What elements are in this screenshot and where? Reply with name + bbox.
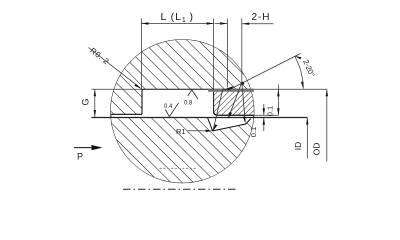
detail circle [111,40,254,183]
svg-text:0.4: 0.4 [164,104,173,110]
svg-text:2-H: 2-H [252,12,271,23]
center chain line [123,188,237,190]
tiny dotted marks inside circle bottom [160,167,197,169]
dimension 0.1 (clearance gap) [263,104,265,115]
svg-text:R1: R1 [176,127,186,136]
upper housing mass hatched [105,30,260,114]
notch edges [208,118,251,131]
dimension L(L1) [140,19,142,90]
pressure arrow P [74,147,95,149]
dimension 2-H [226,19,228,88]
lower part surface line [92,117,308,119]
dimension ID [306,118,308,159]
groove left wall edge [141,89,143,114]
dimension OD [326,89,328,161]
insert top contact thick line [208,89,254,92]
dimension G [94,89,96,117]
X leader lines on insert [213,89,223,131]
svg-text:L (L1 ): L (L1 ) [161,11,194,24]
groove top line [92,88,142,90]
angle line 2-20 deg [228,54,301,91]
insert left edge [213,91,215,112]
lip bottom edge [109,113,142,115]
svg-text:0.8: 0.8 [184,101,193,107]
leader R0.2 [89,48,141,88]
svg-text:ID: ID [293,142,303,151]
svg-text:OD: OD [312,143,322,156]
insert bottom edge [214,111,255,115]
svg-text:0.1: 0.1 [249,127,258,137]
angle arc with arrows [295,56,304,89]
svg-text:G: G [81,98,91,105]
small left arrow at contact line [224,86,234,90]
lower part mass hatched with heel notch [105,118,260,193]
svg-text:P: P [77,152,83,162]
seal insert hatched [214,90,255,115]
insert bottom extension line [254,114,279,116]
dimension 0.1 (seal height, right) [277,85,279,116]
svg-text:0.1: 0.1 [265,106,274,116]
